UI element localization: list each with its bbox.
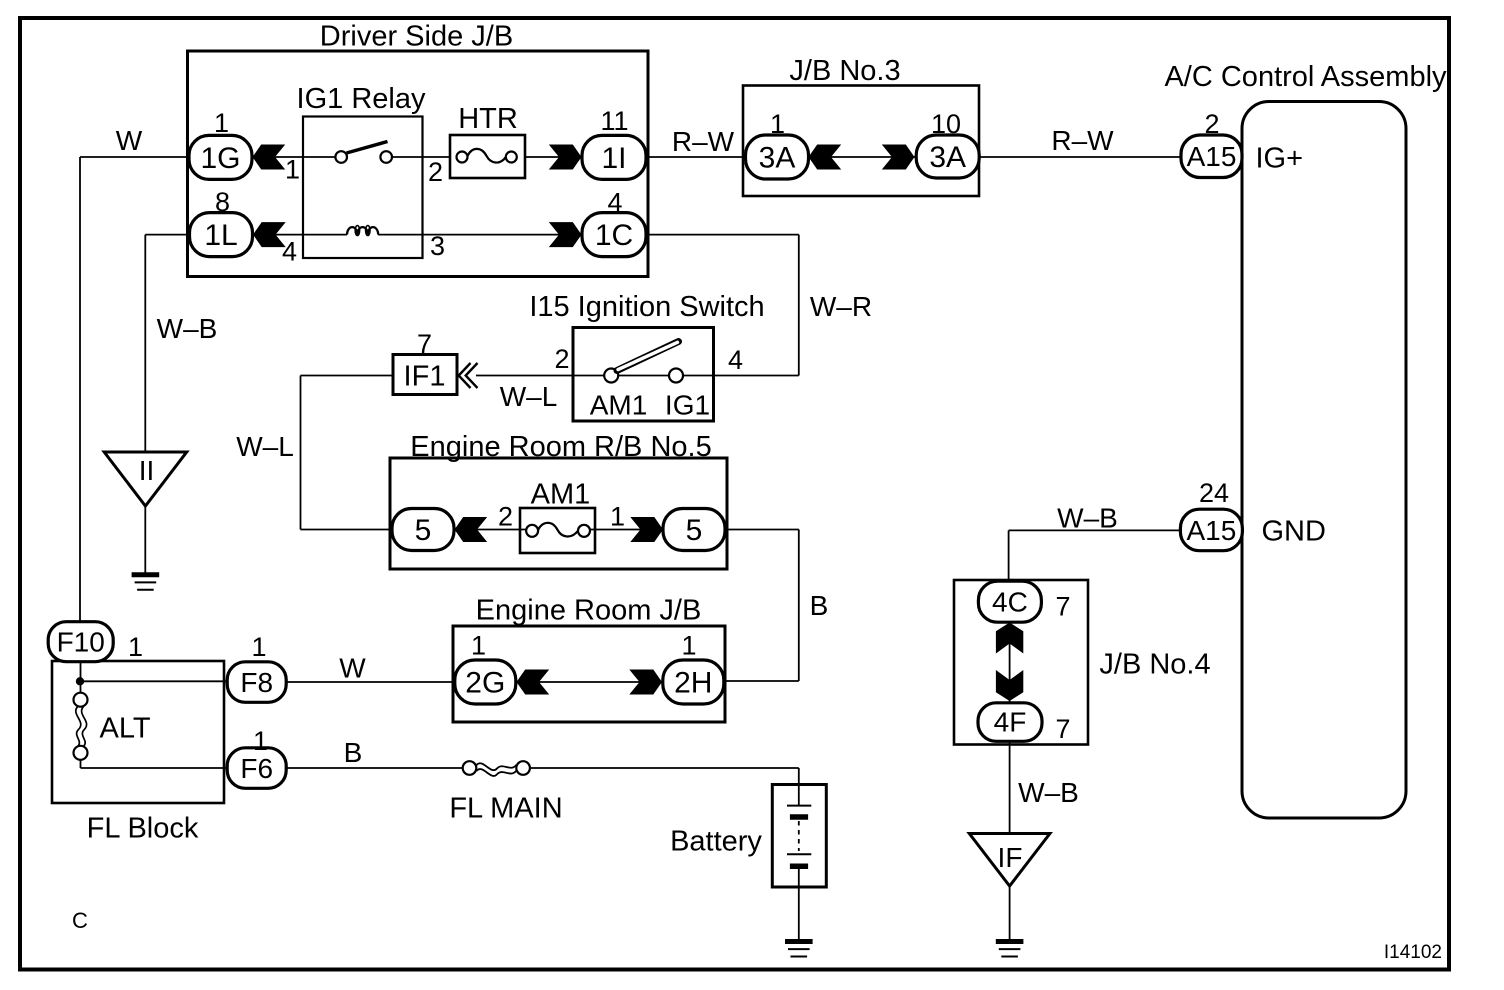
svg-text:R–W: R–W — [1051, 125, 1114, 156]
svg-text:3A: 3A — [929, 141, 966, 174]
svg-text:IG+: IG+ — [1256, 143, 1304, 175]
svg-text:2: 2 — [428, 157, 443, 187]
svg-text:J/B No.3: J/B No.3 — [789, 55, 900, 87]
svg-text:W–B: W–B — [157, 313, 218, 344]
svg-text:I14102: I14102 — [1384, 942, 1442, 963]
svg-text:5: 5 — [415, 514, 432, 547]
svg-text:4F: 4F — [994, 707, 1027, 738]
svg-text:W–B: W–B — [1057, 503, 1118, 534]
svg-text:2: 2 — [498, 502, 513, 532]
svg-text:B: B — [810, 590, 829, 621]
svg-text:Battery: Battery — [670, 826, 762, 858]
svg-text:4: 4 — [282, 237, 297, 267]
svg-text:7: 7 — [1055, 592, 1070, 622]
svg-text:W–L: W–L — [236, 431, 294, 462]
svg-text:W: W — [116, 125, 143, 156]
svg-text:A/C Control Assembly: A/C Control Assembly — [1164, 61, 1447, 93]
svg-text:Driver Side J/B: Driver Side J/B — [320, 21, 513, 53]
svg-text:3: 3 — [430, 231, 445, 261]
svg-text:II: II — [139, 455, 155, 486]
svg-text:3A: 3A — [759, 142, 796, 175]
svg-text:7: 7 — [1055, 714, 1070, 744]
svg-text:1: 1 — [285, 155, 300, 185]
svg-text:IF1: IF1 — [404, 361, 446, 393]
svg-text:FL Block: FL Block — [87, 813, 199, 845]
svg-text:I15 Ignition Switch: I15 Ignition Switch — [529, 291, 764, 323]
svg-text:1: 1 — [128, 632, 143, 662]
svg-text:R–W: R–W — [672, 126, 735, 157]
svg-text:F10: F10 — [57, 627, 105, 658]
svg-text:IG1: IG1 — [665, 390, 710, 421]
svg-text:11: 11 — [600, 106, 628, 136]
svg-text:W–L: W–L — [500, 381, 558, 412]
svg-text:W–R: W–R — [810, 291, 872, 322]
svg-text:HTR: HTR — [458, 103, 518, 135]
svg-text:4C: 4C — [992, 587, 1028, 618]
svg-text:AM1: AM1 — [531, 479, 591, 511]
svg-text:A15: A15 — [1187, 141, 1237, 172]
svg-text:1: 1 — [471, 631, 486, 661]
svg-text:IF: IF — [998, 842, 1023, 873]
svg-text:10: 10 — [931, 109, 961, 139]
svg-text:24: 24 — [1199, 478, 1229, 508]
svg-text:F8: F8 — [240, 667, 273, 698]
svg-text:1: 1 — [610, 502, 625, 532]
svg-text:2H: 2H — [674, 667, 712, 700]
svg-text:1: 1 — [251, 632, 266, 662]
svg-text:1L: 1L — [204, 219, 237, 252]
svg-text:GND: GND — [1262, 516, 1326, 548]
svg-text:1: 1 — [253, 726, 268, 756]
svg-text:IG1 Relay: IG1 Relay — [297, 83, 426, 115]
svg-text:2G: 2G — [465, 667, 505, 700]
svg-text:1C: 1C — [595, 219, 633, 252]
svg-text:B: B — [344, 737, 363, 768]
svg-text:1: 1 — [681, 631, 696, 661]
svg-text:F6: F6 — [240, 753, 273, 784]
svg-text:7: 7 — [417, 329, 432, 359]
svg-text:W: W — [339, 653, 366, 684]
svg-text:1G: 1G — [200, 142, 240, 175]
svg-text:5: 5 — [686, 514, 703, 547]
svg-text:8: 8 — [215, 187, 230, 217]
svg-text:2: 2 — [1204, 109, 1219, 139]
svg-text:2: 2 — [554, 344, 569, 374]
svg-text:4: 4 — [728, 345, 743, 375]
svg-text:Engine Room J/B: Engine Room J/B — [476, 595, 702, 627]
svg-text:A15: A15 — [1186, 515, 1236, 546]
svg-text:W–B: W–B — [1018, 777, 1079, 808]
svg-text:FL MAIN: FL MAIN — [449, 793, 562, 825]
svg-text:1: 1 — [770, 109, 785, 139]
svg-text:1I: 1I — [601, 142, 626, 175]
svg-text:C: C — [72, 908, 88, 933]
svg-text:Engine Room R/B No.5: Engine Room R/B No.5 — [410, 431, 711, 463]
svg-text:ALT: ALT — [100, 713, 151, 745]
svg-text:1: 1 — [214, 108, 229, 138]
svg-text:J/B No.4: J/B No.4 — [1099, 649, 1210, 681]
svg-text:AM1: AM1 — [590, 390, 648, 421]
svg-text:4: 4 — [607, 188, 622, 218]
